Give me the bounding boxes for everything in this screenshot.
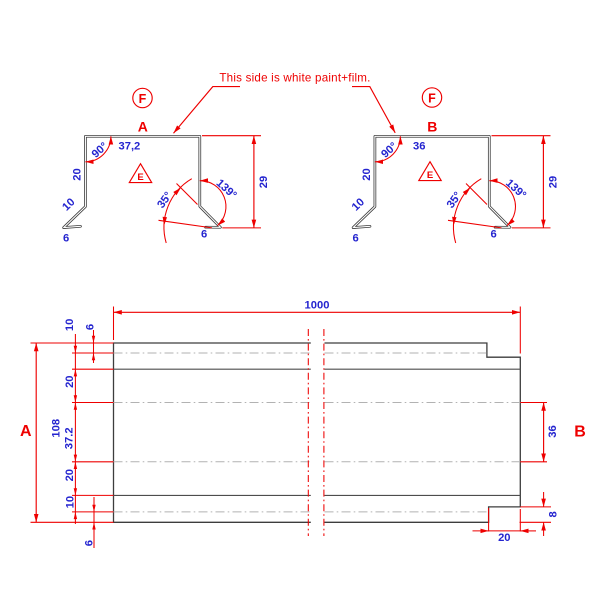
- fold line L2 solid right: [325, 368, 521, 370]
- dim 29 line (B): [542, 136, 544, 228]
- fold line L3 dashdot right: [325, 402, 521, 404]
- construction line extended diagonal (B): [466, 184, 487, 205]
- chain arrow up at fold4: [74, 462, 77, 469]
- dim 20 notch arrow right: [520, 530, 536, 532]
- dim 29 extension top (B): [492, 135, 551, 137]
- 90 degree arc (B): [375, 136, 401, 162]
- chain extension line fold3: [72, 402, 114, 404]
- fold line L5 solid left: [114, 494, 311, 496]
- profile B outline: [353, 136, 510, 227]
- chain arrow down at fold1: [74, 346, 77, 353]
- svg-text:8: 8: [547, 511, 559, 517]
- dim 20 notch extension left: [488, 508, 490, 532]
- dim 6 bottom arrow down: [92, 505, 95, 512]
- svg-text:10: 10: [64, 319, 76, 331]
- chain arrow down at fold3: [74, 395, 77, 402]
- chain arrow up at fold6: [74, 512, 77, 519]
- svg-text:B: B: [574, 424, 586, 441]
- construction line extended diagonal (A): [177, 184, 198, 205]
- symbol triangle E (A): [129, 164, 151, 183]
- dim 20 notch line: [489, 530, 521, 532]
- 35 arc arrow lower (A): [163, 217, 167, 226]
- dim 108 extension top: [31, 342, 114, 344]
- dim 8 extension top: [520, 506, 551, 508]
- dim 1000 line: [114, 311, 521, 313]
- 35 degree arc (A): [164, 179, 192, 243]
- symbol circle F (B): [422, 88, 441, 107]
- fold line L3 dashdot left: [114, 402, 311, 404]
- 139 degree arc (A): [200, 181, 226, 226]
- chain extension line fold6: [72, 511, 114, 513]
- 35 arc arrow lower (B): [452, 217, 456, 226]
- svg-text:20: 20: [498, 532, 510, 544]
- fold line L6 dashdot left: [114, 511, 311, 513]
- leader line right to profile B: [352, 87, 395, 133]
- svg-text:20: 20: [361, 168, 373, 180]
- plan outline right part with notches: [325, 343, 521, 522]
- dim 8 extension bottom: [520, 521, 552, 523]
- plan outline left part: [114, 343, 311, 522]
- 139 degree arc (B): [489, 181, 515, 226]
- dim 6 top arrow down: [92, 336, 95, 343]
- break line left: [307, 329, 309, 536]
- construction line base (B): [448, 220, 502, 228]
- fold line L1 dashdot left: [114, 352, 311, 354]
- dim 36 line: [543, 403, 545, 462]
- svg-text:E: E: [137, 172, 143, 183]
- chain arrow up at fold2: [74, 369, 77, 376]
- chain dimension line left: [74, 334, 76, 524]
- dim 29 extension top (A): [202, 135, 261, 137]
- fold line L4 dashdot left: [114, 461, 311, 463]
- dim 1000 extension right: [519, 307, 521, 354]
- svg-text:6: 6: [353, 233, 359, 245]
- dim 6 top arrow up: [92, 353, 95, 360]
- dim 108 line: [35, 343, 37, 522]
- svg-text:This side is white paint+film.: This side is white paint+film.: [219, 72, 370, 85]
- svg-text:A: A: [138, 119, 148, 135]
- dim 6 top line: [93, 330, 95, 363]
- svg-text:37,2: 37,2: [119, 141, 141, 153]
- svg-text:20: 20: [64, 469, 76, 481]
- dim 6 bottom arrow up: [92, 522, 95, 529]
- svg-text:F: F: [428, 91, 436, 105]
- chain extension line fold2: [72, 368, 114, 370]
- svg-text:29: 29: [258, 176, 270, 188]
- fold line L2 solid left: [114, 368, 311, 370]
- dim 8 arrow top: [543, 492, 545, 507]
- symbol triangle E (B): [419, 162, 441, 181]
- svg-text:36: 36: [547, 425, 559, 437]
- dim 36 extension top: [520, 402, 547, 404]
- fold line L4 dashdot right: [325, 461, 521, 463]
- chain extension line fold1: [72, 352, 114, 354]
- profile A outline: [64, 136, 221, 227]
- svg-text:F: F: [139, 92, 147, 106]
- dim 20 notch arrow left: [473, 530, 489, 532]
- svg-text:6: 6: [63, 233, 69, 245]
- svg-text:36: 36: [413, 141, 425, 153]
- chain extension line fold4: [72, 461, 114, 463]
- svg-text:6: 6: [491, 229, 497, 241]
- dim 29 line (A): [253, 136, 255, 228]
- dim 108 extension bottom: [31, 521, 114, 523]
- chain arrow up at fold3: [74, 403, 77, 410]
- break line right: [323, 329, 325, 536]
- 35 arc arrow upper (A): [173, 188, 181, 196]
- chain arrow down at fold4: [74, 455, 77, 462]
- 35 arc arrow upper (B): [463, 188, 471, 196]
- svg-text:20: 20: [64, 375, 76, 387]
- fold line L1 dashdot right: [325, 352, 487, 354]
- svg-text:37.2: 37.2: [64, 427, 76, 449]
- svg-text:10: 10: [64, 496, 76, 508]
- construction line base (A): [159, 220, 213, 228]
- chain extension line fold5: [72, 494, 114, 496]
- 35 degree arc (B): [453, 179, 481, 243]
- symbol circle F (A): [133, 88, 152, 107]
- fold line L5 solid right: [325, 494, 521, 496]
- svg-text:29: 29: [547, 176, 559, 188]
- dim 20 notch extension right: [519, 509, 521, 532]
- dim 29 extension bottom (A): [222, 227, 261, 229]
- fold line L6 dashdot right: [325, 511, 489, 513]
- chain arrow down at fold5: [74, 488, 77, 495]
- leader line left to profile A: [174, 87, 241, 134]
- svg-text:1000: 1000: [305, 299, 330, 311]
- svg-text:20: 20: [72, 168, 84, 180]
- svg-text:6: 6: [85, 324, 97, 330]
- dim 36 extension bottom: [520, 461, 547, 463]
- dim 8 arrow bottom: [543, 522, 545, 536]
- svg-text:A: A: [20, 423, 32, 440]
- dim 29 extension bottom (B): [512, 227, 551, 229]
- svg-text:6: 6: [84, 540, 96, 546]
- svg-text:B: B: [427, 119, 437, 135]
- profile B group: [350, 88, 560, 245]
- 90 degree arc (A): [85, 136, 111, 162]
- svg-text:E: E: [427, 170, 433, 181]
- svg-text:6: 6: [201, 229, 207, 241]
- dim 1000 extension left: [113, 307, 115, 341]
- svg-text:108: 108: [51, 419, 63, 438]
- dim 6 bottom line: [93, 497, 95, 548]
